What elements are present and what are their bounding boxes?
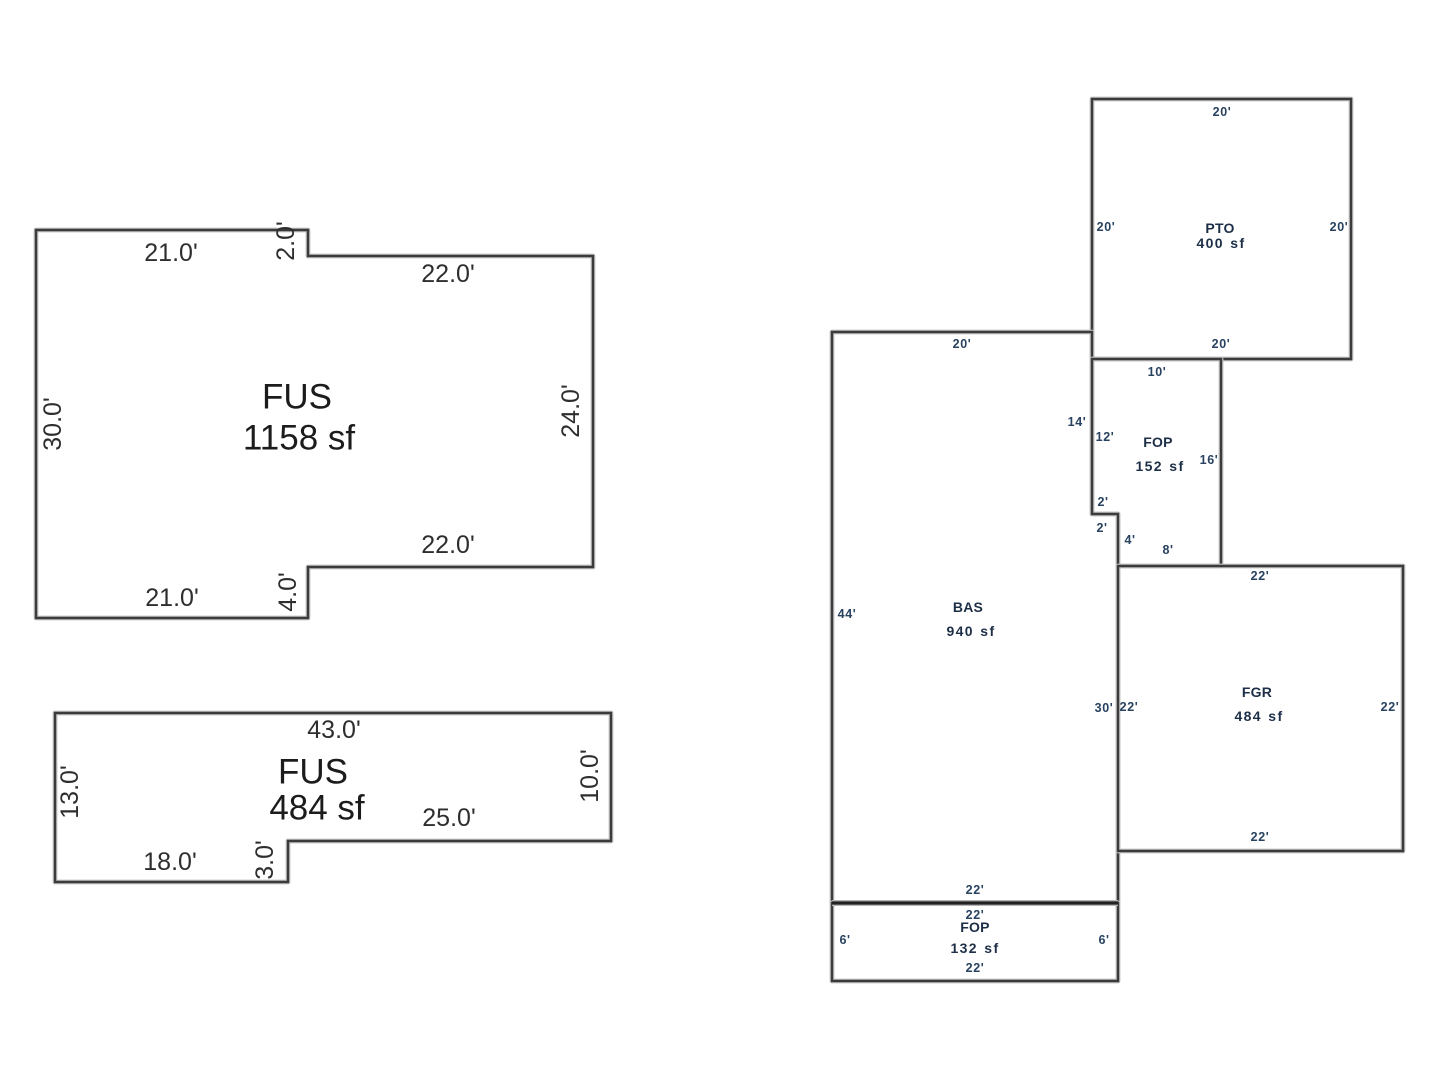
svg-text:20': 20' [1330, 220, 1349, 234]
svg-text:16': 16' [1200, 453, 1219, 467]
svg-text:13.0': 13.0' [56, 765, 84, 818]
svg-text:21.0': 21.0' [144, 239, 197, 267]
svg-text:22': 22' [966, 961, 985, 975]
svg-text:FGR: FGR [1242, 684, 1272, 700]
svg-text:22': 22' [1251, 569, 1270, 583]
area PTO 400 sf outline [1092, 99, 1351, 359]
area FUS 484 sf outline [55, 713, 611, 882]
svg-text:22': 22' [1381, 700, 1400, 714]
svg-text:22.0': 22.0' [421, 531, 474, 559]
svg-text:132 sf: 132 sf [950, 940, 999, 956]
wall thick shared edge BAS/FOP [832, 900, 1118, 906]
area FOP 132 sf outline [832, 903, 1118, 981]
svg-text:22': 22' [1120, 700, 1139, 714]
svg-text:940 sf: 940 sf [946, 623, 995, 639]
svg-text:6': 6' [1098, 933, 1109, 947]
svg-text:20': 20' [1212, 337, 1231, 351]
svg-text:22': 22' [966, 883, 985, 897]
svg-text:400 sf: 400 sf [1196, 235, 1245, 251]
area FUS 1158 sf outline [36, 230, 593, 618]
svg-text:30.0': 30.0' [39, 397, 67, 450]
svg-text:44': 44' [838, 607, 857, 621]
svg-text:484 sf: 484 sf [1234, 708, 1283, 724]
svg-text:20': 20' [1097, 220, 1116, 234]
svg-text:6': 6' [839, 933, 850, 947]
svg-text:24.0': 24.0' [557, 384, 585, 437]
svg-text:FOP: FOP [960, 919, 989, 935]
svg-text:20': 20' [1213, 105, 1232, 119]
svg-text:152 sf: 152 sf [1135, 458, 1184, 474]
svg-text:FOP: FOP [1143, 434, 1172, 450]
svg-text:4.0': 4.0' [274, 572, 302, 612]
svg-text:10': 10' [1148, 365, 1167, 379]
svg-text:2.0': 2.0' [272, 221, 300, 261]
svg-text:8': 8' [1162, 543, 1173, 557]
svg-text:4': 4' [1124, 533, 1135, 547]
svg-text:2': 2' [1097, 495, 1108, 509]
svg-text:25.0': 25.0' [422, 804, 475, 832]
area BAS 940 sf outline [832, 332, 1118, 903]
area FGR 484 sf outline [1118, 566, 1403, 851]
svg-text:3.0': 3.0' [251, 840, 279, 880]
svg-text:PTO: PTO [1205, 220, 1234, 236]
svg-text:22': 22' [1251, 830, 1270, 844]
svg-text:FUS: FUS [278, 753, 348, 792]
svg-text:2': 2' [1096, 521, 1107, 535]
svg-text:12': 12' [1096, 430, 1115, 444]
svg-text:18.0': 18.0' [143, 848, 196, 876]
svg-text:10.0': 10.0' [576, 749, 604, 802]
svg-text:20': 20' [953, 337, 972, 351]
svg-text:1158 sf: 1158 sf [243, 419, 355, 458]
svg-text:FUS: FUS [262, 378, 332, 417]
svg-text:484 sf: 484 sf [269, 789, 365, 828]
svg-text:14': 14' [1068, 415, 1087, 429]
svg-text:43.0': 43.0' [307, 716, 360, 744]
svg-text:21.0': 21.0' [145, 584, 198, 612]
svg-text:30': 30' [1095, 701, 1114, 715]
svg-text:22.0': 22.0' [421, 260, 474, 288]
area FOP 152 sf outline [1092, 359, 1221, 566]
svg-text:BAS: BAS [953, 599, 983, 615]
